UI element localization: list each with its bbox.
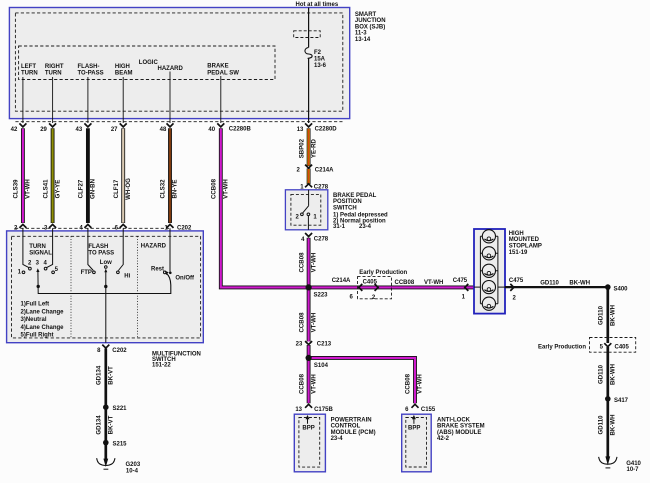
wire stub brake pedal sw xyxy=(220,76,222,123)
brake pedal position switch box xyxy=(285,190,327,230)
wire label CCB08 VT-WH horizontal xyxy=(395,280,444,286)
svg-text:C475: C475 xyxy=(453,278,468,284)
pin 48 xyxy=(160,123,174,133)
connector C475 pin 2 xyxy=(509,278,524,302)
wire S104 to PCM C175B xyxy=(298,358,317,403)
pin 6 C202 xyxy=(115,224,127,231)
label hazard xyxy=(158,66,184,72)
svg-text:MODULE (PCM): MODULE (PCM) xyxy=(331,430,376,436)
svg-text:23: 23 xyxy=(296,341,303,347)
label abs module xyxy=(437,417,485,442)
svg-text:GY-YE: GY-YE xyxy=(54,180,61,199)
splice S417 xyxy=(614,398,629,404)
connector line C202 xyxy=(15,227,169,229)
splice S221 xyxy=(113,406,128,412)
svg-text:HIGH: HIGH xyxy=(509,231,524,237)
turn signal position legend xyxy=(21,302,65,339)
wire to ground G203 xyxy=(104,443,107,461)
stoplamp bulb 3 xyxy=(482,264,495,277)
label high mounted stoplamp xyxy=(509,231,542,256)
wire S104 to ABS C155 xyxy=(309,358,424,403)
hazard lever xyxy=(166,273,171,294)
svg-text:6: 6 xyxy=(405,407,409,413)
svg-text:FLASH-: FLASH- xyxy=(78,64,100,70)
svg-text:23-4: 23-4 xyxy=(359,224,372,230)
pin 4 C202 xyxy=(79,224,91,231)
svg-text:VT-WH: VT-WH xyxy=(417,374,424,394)
stoplamp internal rails xyxy=(474,236,505,303)
bpp switch internals xyxy=(296,190,318,230)
label left turn xyxy=(21,64,38,77)
svg-text:Early Production: Early Production xyxy=(359,270,407,276)
svg-text:S400: S400 xyxy=(614,286,629,292)
wire common to pin8 xyxy=(105,294,107,343)
wire CLS39 VT-WH xyxy=(13,128,32,223)
svg-text:48: 48 xyxy=(160,127,167,133)
logic box xyxy=(19,46,275,80)
abs BPP pin xyxy=(408,415,420,432)
divider turn/flash xyxy=(70,236,72,338)
svg-text:SIGNAL: SIGNAL xyxy=(29,250,52,256)
svg-text:SMART: SMART xyxy=(355,12,377,18)
svg-text:WH-OG: WH-OG xyxy=(125,178,132,200)
svg-text:TO PASS: TO PASS xyxy=(88,250,114,256)
wire stub hazard xyxy=(169,72,171,124)
svg-text:BRAKE: BRAKE xyxy=(207,63,228,69)
label turn signal xyxy=(29,244,52,256)
svg-text:42-2: 42-2 xyxy=(437,436,450,442)
switch common bus xyxy=(38,293,171,295)
abs module box xyxy=(402,414,432,472)
svg-text:GN-BN: GN-BN xyxy=(90,179,97,199)
svg-text:BPP: BPP xyxy=(302,425,314,431)
wire SBP02 YE-RD xyxy=(298,128,317,166)
svg-text:HIGH: HIGH xyxy=(115,64,130,70)
svg-text:YE-RD: YE-RD xyxy=(310,139,317,159)
splice dot S215 xyxy=(103,440,109,446)
Low contact xyxy=(105,266,108,269)
wire stub left turn xyxy=(22,77,24,123)
pcm BPP pin xyxy=(302,415,314,432)
label brake pedal position switch xyxy=(333,193,388,230)
svg-text:VT-WH: VT-WH xyxy=(25,179,32,199)
svg-text:13: 13 xyxy=(297,127,304,133)
svg-text:27: 27 xyxy=(111,127,118,133)
splice dot S221 xyxy=(103,404,109,410)
label powertrain control module xyxy=(331,417,376,442)
svg-text:43: 43 xyxy=(76,127,83,133)
svg-text:BK-WH: BK-WH xyxy=(569,280,590,286)
connector C155 pin 6 xyxy=(405,404,436,413)
svg-text:FTP: FTP xyxy=(81,270,92,276)
connector C405 pin 5 early production xyxy=(538,338,636,353)
svg-text:G410: G410 xyxy=(626,461,641,467)
splice dot S223 xyxy=(306,284,312,290)
svg-text:(ABS) MODULE: (ABS) MODULE xyxy=(437,430,481,436)
svg-text:POSITION: POSITION xyxy=(333,199,362,205)
svg-text:29: 29 xyxy=(40,127,47,133)
svg-text:C214A: C214A xyxy=(315,167,334,173)
wire pin2 to contact2 xyxy=(23,228,29,267)
wire fuse to pin 13 xyxy=(308,58,310,123)
svg-text:FLASH: FLASH xyxy=(88,244,108,250)
wire pin4 to FTP contact xyxy=(88,228,93,270)
svg-text:CLS41: CLS41 xyxy=(42,179,49,199)
svg-text:10-7: 10-7 xyxy=(627,467,640,473)
pin 1 C202 xyxy=(164,224,173,231)
svg-text:BN-YE: BN-YE xyxy=(172,180,179,199)
pin 13 xyxy=(297,123,312,133)
splice S400 xyxy=(614,286,629,292)
splice dot S400 xyxy=(605,284,611,290)
svg-text:BEAM: BEAM xyxy=(115,71,133,77)
svg-text:SWITCH: SWITCH xyxy=(333,205,357,211)
wire GD110 BK-WH seg1 xyxy=(598,287,617,343)
svg-text:GD110: GD110 xyxy=(540,280,559,286)
svg-text:F2: F2 xyxy=(314,50,322,56)
connector C278 pin 1 xyxy=(300,184,329,191)
pin 29 xyxy=(40,123,56,133)
svg-text:1: 1 xyxy=(462,294,466,300)
svg-text:CCB08: CCB08 xyxy=(298,252,305,273)
fuse F2 15A xyxy=(305,47,327,69)
svg-text:GD134: GD134 xyxy=(96,365,103,385)
connector C278 pin 4 xyxy=(301,233,329,243)
svg-text:C2280D: C2280D xyxy=(315,127,338,133)
svg-text:POWERTRAIN: POWERTRAIN xyxy=(331,417,372,423)
rest contact xyxy=(163,271,166,274)
svg-text:BRAKE PEDAL: BRAKE PEDAL xyxy=(333,193,377,199)
svg-text:TO-PASS: TO-PASS xyxy=(78,71,104,77)
svg-text:11-3: 11-3 xyxy=(355,31,367,37)
svg-text:2: 2 xyxy=(296,167,300,173)
svg-text:42: 42 xyxy=(11,127,18,133)
FTP contact xyxy=(93,271,96,274)
wire fuse feed xyxy=(308,8,310,48)
svg-text:GD110: GD110 xyxy=(598,305,605,325)
svg-text:CLF27: CLF27 xyxy=(78,179,85,198)
multifunction switch box xyxy=(7,231,204,343)
svg-text:8: 8 xyxy=(97,348,101,354)
turn signal contact 5 xyxy=(52,271,55,274)
turn signal contact 2 xyxy=(29,267,32,270)
turn signal contact 1 xyxy=(22,271,25,274)
wire SBP02 YE-RD lower xyxy=(307,169,311,185)
wire CLS41 GY-YE xyxy=(42,128,61,223)
svg-text:1)Full Left: 1)Full Left xyxy=(21,302,50,308)
connector C214A inline xyxy=(332,278,363,301)
high mounted stoplamp box xyxy=(474,229,505,314)
svg-text:VT-WH: VT-WH xyxy=(310,313,317,333)
svg-text:BK-WH: BK-WH xyxy=(610,305,617,326)
svg-text:LOGIC: LOGIC xyxy=(139,60,159,66)
divider flash/hazard xyxy=(137,236,139,338)
svg-text:CCB08: CCB08 xyxy=(298,373,305,394)
svg-text:3)Neutral: 3)Neutral xyxy=(21,317,47,323)
svg-text:6: 6 xyxy=(349,294,353,300)
pin 3 C202 xyxy=(44,224,56,231)
svg-text:GD110: GD110 xyxy=(598,364,605,384)
svg-text:151-19: 151-19 xyxy=(509,250,528,256)
svg-text:10-4: 10-4 xyxy=(126,468,139,474)
svg-text:CLS32: CLS32 xyxy=(160,179,167,199)
label right turn xyxy=(45,64,64,77)
wire stub flash-to-pass xyxy=(87,77,89,123)
powertrain control module box xyxy=(294,414,325,472)
svg-text:4)Lane Change: 4)Lane Change xyxy=(21,325,65,331)
svg-text:2: 2 xyxy=(513,295,517,301)
svg-text:VT-WH: VT-WH xyxy=(310,253,317,273)
splice dot S417 xyxy=(605,396,611,402)
svg-text:C475: C475 xyxy=(509,278,524,284)
label high beam xyxy=(115,64,133,77)
svg-text:JUNCTION: JUNCTION xyxy=(355,18,386,24)
pin 27 xyxy=(111,123,127,133)
Hi contact xyxy=(117,271,120,274)
connector C213 pin 23 xyxy=(296,341,332,347)
svg-text:GD110: GD110 xyxy=(598,415,605,435)
wire CLS32 BN-YE xyxy=(160,128,179,223)
svg-text:TURN: TURN xyxy=(29,244,46,250)
svg-text:BK-VT: BK-VT xyxy=(108,415,115,434)
svg-text:BK-WH: BK-WH xyxy=(610,415,617,436)
svg-text:C214A: C214A xyxy=(332,278,351,284)
wire CLF27 GN-BN xyxy=(78,128,97,223)
svg-text:BPP: BPP xyxy=(408,425,420,431)
wire CCB08 VT-WH S223 to C213 xyxy=(298,287,317,341)
bus bar connector xyxy=(294,31,321,38)
svg-text:CONTROL: CONTROL xyxy=(331,424,361,430)
svg-text:40: 40 xyxy=(208,127,215,133)
svg-text:31-1: 31-1 xyxy=(333,224,346,230)
wire GD110 BK-WH seg3 xyxy=(598,399,617,457)
flash lever xyxy=(104,269,107,294)
svg-text:C175B: C175B xyxy=(314,407,333,413)
svg-text:C405: C405 xyxy=(615,344,630,350)
svg-text:2)Lane Change: 2)Lane Change xyxy=(21,309,65,315)
svg-text:CLS39: CLS39 xyxy=(13,179,20,199)
pin 42 xyxy=(11,123,27,133)
connector C175B pin 13 xyxy=(295,404,333,413)
svg-text:4: 4 xyxy=(301,237,305,243)
early production box C405 xyxy=(358,270,408,301)
stoplamp bulb 4 xyxy=(482,281,495,294)
svg-text:C155: C155 xyxy=(421,407,436,413)
ground G203 xyxy=(97,458,141,474)
svg-text:ANTI-LOCK: ANTI-LOCK xyxy=(437,417,471,423)
on/off contact xyxy=(169,272,172,275)
svg-text:HAZARD: HAZARD xyxy=(141,244,167,250)
svg-text:Rest: Rest xyxy=(151,266,164,272)
svg-text:STOPLAMP: STOPLAMP xyxy=(509,243,542,249)
svg-text:RIGHT: RIGHT xyxy=(45,64,64,70)
wire pin3 to contact4 xyxy=(46,228,52,267)
svg-text:VT-WH: VT-WH xyxy=(223,179,230,199)
svg-text:S215: S215 xyxy=(113,442,128,448)
svg-text:On/Off: On/Off xyxy=(175,276,195,282)
wire stub right turn xyxy=(52,77,54,123)
pin 43 xyxy=(76,123,92,133)
wire GD134 BK-VT upper xyxy=(96,349,115,408)
wire C213 to S104 xyxy=(307,345,311,358)
svg-text:CCB08: CCB08 xyxy=(298,312,305,333)
splice S104 xyxy=(314,363,329,369)
wire GD110 BK-WH seg2 xyxy=(598,347,617,399)
svg-text:SBP02: SBP02 xyxy=(298,138,305,158)
splice dot S104 xyxy=(306,355,312,361)
svg-text:BK-VT: BK-VT xyxy=(108,366,115,385)
svg-text:23-4: 23-4 xyxy=(331,436,344,442)
label smart junction box xyxy=(355,12,386,43)
connector line C2280 xyxy=(15,121,342,123)
svg-text:CCB08: CCB08 xyxy=(405,373,412,394)
turn signal position numbers xyxy=(18,261,59,276)
label flash-to-pass xyxy=(78,64,104,77)
svg-text:C202: C202 xyxy=(112,348,127,354)
label multifunction switch xyxy=(152,352,201,369)
svg-text:BK-WH: BK-WH xyxy=(610,364,617,385)
svg-text:GD134: GD134 xyxy=(96,415,103,435)
svg-text:CLF17: CLF17 xyxy=(113,179,120,198)
stoplamp bulb 2 xyxy=(482,247,495,260)
svg-text:13: 13 xyxy=(295,407,302,413)
svg-text:S104: S104 xyxy=(314,363,329,369)
wire GD134 BK-VT lower xyxy=(96,407,115,442)
svg-text:Early Production: Early Production xyxy=(538,344,586,350)
svg-text:15A: 15A xyxy=(314,57,326,63)
svg-text:13-14: 13-14 xyxy=(355,37,371,43)
connector C475 pin 1 xyxy=(453,278,469,301)
pin 2 C202 xyxy=(14,224,26,231)
svg-text:2: 2 xyxy=(372,295,376,301)
svg-text:C278: C278 xyxy=(314,236,329,242)
svg-text:S417: S417 xyxy=(614,398,629,404)
wire pin1 to on/off contact xyxy=(169,228,171,271)
stoplamp bulb 1 xyxy=(482,230,495,243)
svg-text:CCB08: CCB08 xyxy=(395,280,415,286)
ground G410 xyxy=(599,456,642,473)
connector C214A pin 2 xyxy=(296,165,334,174)
svg-text:BOX (SJB): BOX (SJB) xyxy=(355,24,385,30)
pin 8 C202 xyxy=(97,345,127,355)
turn signal lever xyxy=(36,268,40,294)
svg-text:G203: G203 xyxy=(126,462,141,468)
svg-text:LEFT: LEFT xyxy=(21,64,36,70)
turn signal contact 4 xyxy=(44,267,47,270)
svg-text:C2280B: C2280B xyxy=(229,127,252,133)
wire CLF17 WH-OG xyxy=(113,128,132,223)
label flash to pass xyxy=(88,244,114,256)
svg-text:S221: S221 xyxy=(113,406,128,412)
svg-text:Hot at all times: Hot at all times xyxy=(296,2,339,8)
pin 40 xyxy=(208,123,224,133)
wire GD110 BK-WH to S400 xyxy=(505,280,608,287)
label brake pedal sw xyxy=(207,63,239,76)
svg-text:BRAKE SYSTEM: BRAKE SYSTEM xyxy=(437,424,485,430)
svg-text:TURN: TURN xyxy=(45,71,62,77)
svg-text:TURN: TURN xyxy=(21,71,38,77)
splice S223 xyxy=(314,292,329,298)
svg-text:VT-WH: VT-WH xyxy=(424,280,443,286)
wire stub high beam xyxy=(122,77,124,123)
wire pin6 to Hi contact xyxy=(118,228,123,270)
svg-text:VT-WH: VT-WH xyxy=(310,374,317,394)
svg-text:5: 5 xyxy=(600,344,604,350)
svg-text:HAZARD: HAZARD xyxy=(158,66,184,72)
svg-text:CCB08: CCB08 xyxy=(211,178,218,199)
svg-text:13-6: 13-6 xyxy=(314,63,327,69)
svg-text:Hi: Hi xyxy=(124,274,130,280)
svg-text:151-22: 151-22 xyxy=(152,363,171,369)
splice S215 xyxy=(113,442,128,448)
svg-text:S223: S223 xyxy=(314,292,329,298)
wire CCB08 VT-WH to S223 xyxy=(298,238,317,288)
svg-text:MOUNTED: MOUNTED xyxy=(509,237,540,243)
smart junction box SJB outline xyxy=(9,8,349,119)
wire CCB08 VT-WH from pin40 to S223 run xyxy=(211,128,474,287)
svg-text:5)Full Right: 5)Full Right xyxy=(21,333,54,339)
svg-text:C213: C213 xyxy=(317,341,332,347)
svg-text:PEDAL SW: PEDAL SW xyxy=(207,71,239,77)
stoplamp bulb 5 xyxy=(482,297,495,310)
